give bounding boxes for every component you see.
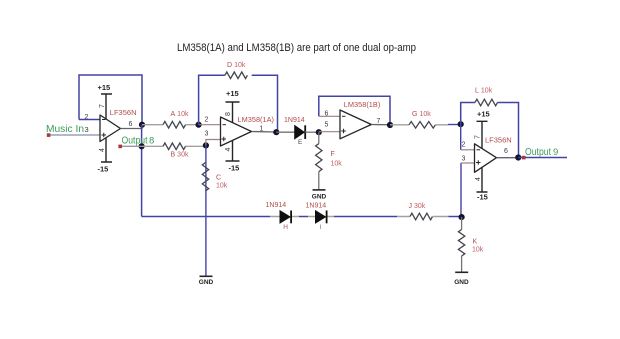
resistor F 10k vertical — [318, 132, 320, 190]
resistor B 30k — [142, 145, 206, 147]
plus sign U1 — [102, 133, 107, 138]
junction dot U4 output — [515, 154, 521, 160]
resistor K 10k vertical — [461, 217, 463, 272]
svg-text:7: 7 — [99, 104, 106, 108]
svg-text:10k: 10k — [331, 161, 343, 168]
svg-text:+15: +15 — [477, 110, 490, 119]
svg-text:6: 6 — [504, 148, 508, 155]
svg-text:D10k: D10k — [227, 62, 246, 69]
diode I 1N914 — [316, 211, 326, 223]
power -15 bar U4 pin4 — [477, 167, 488, 192]
wire pin5 stub U3 — [319, 131, 340, 133]
svg-text:4: 4 — [225, 148, 232, 152]
wire feedback loop U1 (left/top/right box) — [79, 75, 142, 125]
plus sign U3 — [341, 129, 346, 134]
svg-text:J30k: J30k — [409, 203, 426, 210]
junction dot B/C/pin3 — [203, 142, 209, 148]
junction dot U3 output — [387, 122, 393, 128]
svg-text:1N914: 1N914 — [266, 202, 287, 209]
diode H 1N914 — [280, 211, 290, 223]
port square Output 8 — [118, 145, 122, 149]
svg-text:LF356N: LF356N — [485, 136, 512, 145]
wire bottom rail — [142, 216, 462, 218]
svg-text:7: 7 — [475, 135, 482, 139]
svg-text:GND: GND — [454, 279, 469, 286]
svg-text:1: 1 — [260, 125, 264, 132]
junction dot U1 output — [139, 122, 145, 128]
svg-text:10k: 10k — [216, 183, 228, 190]
svg-text:3: 3 — [462, 156, 466, 163]
minus sign U4 — [477, 149, 481, 151]
svg-text:+15: +15 — [226, 89, 239, 98]
svg-text:8: 8 — [225, 112, 232, 116]
power -15 bar U2 pin4 — [226, 141, 240, 162]
wire U3 output stub — [371, 124, 390, 126]
svg-text:LM358(1A): LM358(1A) — [238, 115, 275, 124]
svg-text:1N914: 1N914 — [306, 202, 327, 209]
svg-text:2: 2 — [85, 114, 89, 121]
svg-text:Output: Output — [122, 135, 148, 146]
svg-text:L10k: L10k — [475, 88, 493, 95]
svg-text:5: 5 — [325, 122, 329, 129]
wire U1 output stub — [121, 125, 143, 129]
resistor A 10k — [142, 124, 199, 126]
svg-text:H: H — [283, 224, 288, 231]
svg-text:2: 2 — [462, 142, 466, 149]
svg-text:+15: +15 — [98, 83, 111, 92]
power -15 bar U1 pin4 — [101, 138, 112, 162]
wire Output 8 port — [120, 145, 142, 147]
op-amp U2 triangle — [221, 117, 252, 146]
svg-text:GND: GND — [312, 194, 327, 201]
minus sign U1 — [102, 119, 106, 121]
wire pin2 stub U1 — [79, 119, 100, 121]
svg-text:Output: Output — [525, 147, 551, 158]
port square Output 9 — [522, 156, 526, 160]
wire feedback loop U3 (left/top/right box) — [319, 96, 390, 125]
svg-text:B30k: B30k — [171, 152, 189, 159]
junction dot U2 output — [273, 129, 279, 135]
svg-text:6: 6 — [325, 111, 329, 118]
wire pin6 stub U3 — [319, 115, 340, 117]
wire feedback loop U2 (left/top/right box) — [199, 75, 278, 132]
wire C branch down through rail — [205, 145, 207, 276]
svg-text:F: F — [331, 151, 335, 158]
svg-text:1N914: 1N914 — [284, 117, 305, 124]
wire pin2 drop U4 — [460, 124, 462, 150]
svg-text:LM358(1B): LM358(1B) — [344, 100, 381, 109]
junction dot J/K node — [459, 214, 465, 220]
wire gray leads bottom rail — [270, 216, 449, 218]
wire U4 output stub — [497, 157, 519, 159]
svg-text:G10k: G10k — [412, 111, 431, 118]
ground symbol F — [313, 189, 326, 191]
svg-text:9: 9 — [553, 147, 558, 158]
resistor G 10k — [390, 124, 448, 126]
svg-text:LM358(1A) and LM358(1B) are pa: LM358(1A) and LM358(1B) are part of one … — [177, 42, 416, 54]
wire Output 9 — [518, 157, 567, 159]
ground symbol C — [200, 275, 213, 277]
resistor D 10k — [225, 72, 248, 79]
junction dot Output8/B node — [139, 143, 145, 149]
svg-text:8: 8 — [149, 136, 154, 147]
minus sign U2 — [223, 124, 227, 126]
wire pin3 riser U2 — [206, 140, 221, 146]
svg-text:7: 7 — [377, 118, 381, 125]
svg-text:E: E — [298, 139, 303, 146]
svg-text:C: C — [216, 175, 221, 182]
minus sign U3 — [342, 115, 346, 117]
op-amp U3 triangle — [340, 110, 371, 139]
svg-text:A10k: A10k — [171, 111, 189, 118]
resistor L 10k — [475, 99, 498, 106]
svg-text:3: 3 — [85, 125, 89, 134]
resistor C 10k vertical — [202, 163, 208, 192]
power +15 bar U1 pin7 — [101, 94, 112, 119]
svg-text:-15: -15 — [98, 165, 109, 174]
svg-text:-15: -15 — [477, 193, 488, 202]
power +15 bar U4 pin7 — [477, 121, 488, 148]
svg-text:LF356N: LF356N — [110, 108, 137, 117]
svg-text:6: 6 — [129, 121, 133, 128]
wire U2 output stub — [252, 131, 277, 134]
svg-text:Music In: Music In — [46, 124, 84, 135]
plus sign U2 — [222, 137, 227, 142]
wire G right lead blue — [448, 124, 461, 126]
port square Music In — [47, 133, 51, 137]
svg-text:4: 4 — [475, 177, 482, 181]
svg-text:K: K — [473, 239, 478, 246]
svg-text:GND: GND — [199, 279, 214, 286]
svg-text:10k: 10k — [472, 247, 484, 254]
junction dot A/D/pin2 — [196, 122, 202, 128]
junction dot E/F/pin5 node — [316, 129, 322, 135]
svg-text:I: I — [320, 224, 322, 231]
diode E 1N914 — [276, 131, 294, 133]
resistor J 30k — [410, 213, 433, 220]
svg-text:-15: -15 — [229, 164, 240, 173]
svg-text:2: 2 — [205, 117, 209, 124]
wire feedback loop U4 (left/top/right box) — [461, 103, 519, 158]
svg-text:3: 3 — [205, 130, 209, 137]
wire pin2 stub U2 — [199, 124, 221, 126]
ground symbol K — [455, 271, 468, 273]
plus sign U4 — [476, 160, 481, 165]
svg-text:4: 4 — [99, 148, 106, 152]
wire Music In to pin3 — [49, 134, 101, 136]
wire pin3 riser U4 — [460, 163, 462, 217]
op-amp U1 triangle — [100, 115, 121, 142]
power +15 bar U2 pin8 — [226, 102, 240, 123]
junction dot G/L/pin2 node — [458, 121, 464, 127]
wire vertical from U1 output down to bottom rail — [141, 125, 143, 217]
op-amp U4 triangle — [475, 144, 497, 173]
